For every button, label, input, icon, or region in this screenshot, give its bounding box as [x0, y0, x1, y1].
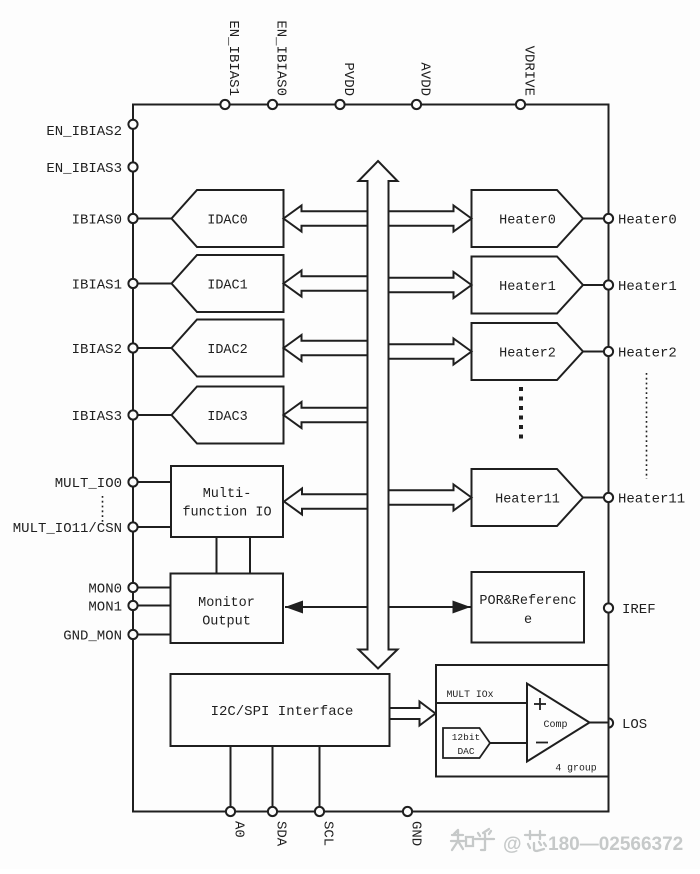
ellipsis dots between Heater2 and Heater11	[519, 387, 523, 444]
block IDAC2	[172, 320, 284, 377]
pin Heater2 (right)	[583, 346, 677, 362]
arrow bus to Heater1	[389, 272, 472, 298]
svg-text:12bit: 12bit	[452, 732, 481, 743]
pin MON1	[88, 600, 170, 616]
pin Heater0 (right)	[583, 213, 677, 229]
pin MULT_IO11/CSN	[13, 521, 171, 537]
svg-text:IBIAS0: IBIAS0	[72, 213, 122, 229]
arrow I2C/SPI to comparator group	[390, 702, 436, 726]
block Heater2	[472, 323, 584, 380]
svg-text:SDA: SDA	[273, 821, 289, 847]
svg-text:IREF: IREF	[622, 602, 656, 618]
svg-text:SCL: SCL	[320, 821, 336, 846]
svg-text:MON1: MON1	[88, 600, 122, 616]
svg-text:Heater0: Heater0	[618, 213, 677, 229]
svg-text:Heater2: Heater2	[499, 347, 556, 362]
svg-text:180—02566372: 180—02566372	[548, 834, 683, 855]
pin SDA	[268, 746, 289, 847]
pin IBIAS3	[72, 409, 172, 425]
block Monitor Output	[171, 574, 284, 644]
svg-text:I2C/SPI Interface: I2C/SPI Interface	[211, 704, 354, 720]
svg-text:PVDD: PVDD	[340, 62, 356, 96]
arrow bus to Heater2	[389, 339, 472, 365]
svg-text:POR&Referenc: POR&Referenc	[479, 594, 576, 609]
svg-text:DAC: DAC	[457, 746, 474, 757]
svg-text:IDAC1: IDAC1	[207, 279, 248, 294]
arrow Monitor to POR (bidirectional)	[285, 601, 471, 614]
wire DAC to op-amp -	[490, 742, 527, 744]
svg-text:IBIAS2: IBIAS2	[72, 342, 122, 358]
block IDAC1	[172, 255, 284, 312]
comparator group box	[436, 665, 609, 777]
wire MFIO-Monitor left	[216, 537, 218, 574]
arrow bus to Heater11	[389, 485, 472, 511]
svg-text:A0: A0	[231, 821, 247, 838]
svg-text:Monitor: Monitor	[198, 596, 255, 611]
svg-text:e: e	[524, 613, 532, 628]
op-amp Comp	[527, 684, 590, 762]
pin IREF (right)	[604, 602, 656, 618]
wire op-amp to LOS	[590, 722, 609, 724]
svg-text:IDAC2: IDAC2	[207, 343, 248, 358]
svg-text:GND_MON: GND_MON	[63, 629, 122, 645]
svg-text:Output: Output	[202, 615, 251, 630]
block Heater1	[472, 257, 584, 314]
svg-text:MULT_IO0: MULT_IO0	[55, 476, 122, 492]
pin IBIAS1	[72, 278, 172, 294]
arrow bus to Heater0	[389, 206, 472, 232]
pin IBIAS0	[72, 213, 172, 229]
svg-text:Heater1: Heater1	[618, 279, 677, 295]
block Heater0	[472, 190, 584, 247]
wire MFIO-Monitor right	[249, 537, 251, 574]
block I2C/SPI Interface	[171, 674, 390, 746]
dotted line Heater2..Heater11 labels	[646, 373, 648, 479]
svg-text:GND: GND	[408, 821, 424, 846]
arrow bus to IDAC3	[284, 402, 368, 428]
svg-text:LOS: LOS	[622, 717, 647, 733]
pin LOS (right)	[604, 717, 647, 733]
pin MULT_IO0	[55, 476, 171, 492]
svg-text:@: @	[503, 834, 522, 855]
block IDAC0	[172, 190, 284, 247]
svg-text:IBIAS1: IBIAS1	[72, 278, 122, 294]
svg-text:Heater11: Heater11	[618, 492, 685, 508]
svg-text:4 group: 4 group	[555, 763, 596, 774]
svg-text:AVDD: AVDD	[417, 62, 433, 96]
svg-text:Heater11: Heater11	[495, 493, 560, 508]
block Multi-function IO	[171, 466, 283, 537]
block 12bit DAC	[443, 728, 490, 758]
pin EN_IBIAS3	[46, 161, 137, 177]
pin Heater1 (right)	[583, 279, 677, 295]
svg-text:function IO: function IO	[182, 506, 271, 521]
svg-text:IBIAS3: IBIAS3	[72, 409, 122, 425]
svg-text:EN_IBIAS0: EN_IBIAS0	[273, 20, 289, 96]
svg-text:Comp: Comp	[543, 720, 567, 731]
pin VDRIVE	[516, 46, 537, 110]
pin GND_MON	[63, 629, 170, 645]
pin MON0	[88, 582, 170, 598]
svg-text:EN_IBIAS3: EN_IBIAS3	[46, 161, 122, 177]
arrow bus to IDAC2	[284, 335, 368, 361]
svg-text:MULT IOx: MULT IOx	[447, 689, 494, 700]
block Heater11	[472, 469, 584, 526]
arrow bus to IDAC1	[284, 271, 368, 297]
bus vertical double arrow	[359, 161, 398, 669]
svg-text:EN_IBIAS2: EN_IBIAS2	[46, 124, 122, 140]
arrow bus to Multi-function IO	[284, 489, 368, 515]
pin EN_IBIAS1	[220, 20, 241, 109]
block POR&Reference	[472, 572, 585, 643]
svg-text:Heater1: Heater1	[499, 280, 556, 295]
svg-text:IDAC0: IDAC0	[207, 214, 248, 229]
block IDAC3	[172, 387, 284, 444]
svg-text:MON0: MON0	[88, 582, 122, 598]
svg-text:Heater2: Heater2	[618, 346, 677, 362]
pin AVDD	[412, 62, 433, 109]
svg-text:Heater0: Heater0	[499, 214, 556, 229]
wire MULT IOx to op-amp +	[436, 702, 527, 704]
arrow bus to IDAC0	[284, 206, 368, 232]
svg-text:MULT_IO11/CSN: MULT_IO11/CSN	[13, 521, 122, 537]
watermark zhihu	[451, 829, 494, 850]
pin IBIAS2	[72, 342, 172, 358]
pin SCL	[315, 746, 336, 846]
pin EN_IBIAS0	[268, 20, 289, 109]
svg-text:Multi-: Multi-	[203, 487, 252, 502]
pin A0	[226, 746, 247, 838]
dotted line MULT_IO0..MULT_IO11	[102, 496, 104, 523]
pin GND	[403, 807, 424, 846]
svg-text:VDRIVE: VDRIVE	[521, 46, 537, 96]
svg-text:EN_IBIAS1: EN_IBIAS1	[225, 20, 241, 96]
pin EN_IBIAS2	[46, 120, 137, 140]
chip boundary	[133, 105, 609, 812]
svg-text:IDAC3: IDAC3	[207, 410, 248, 425]
pin PVDD	[335, 62, 356, 109]
pin Heater11 (right)	[583, 492, 685, 508]
